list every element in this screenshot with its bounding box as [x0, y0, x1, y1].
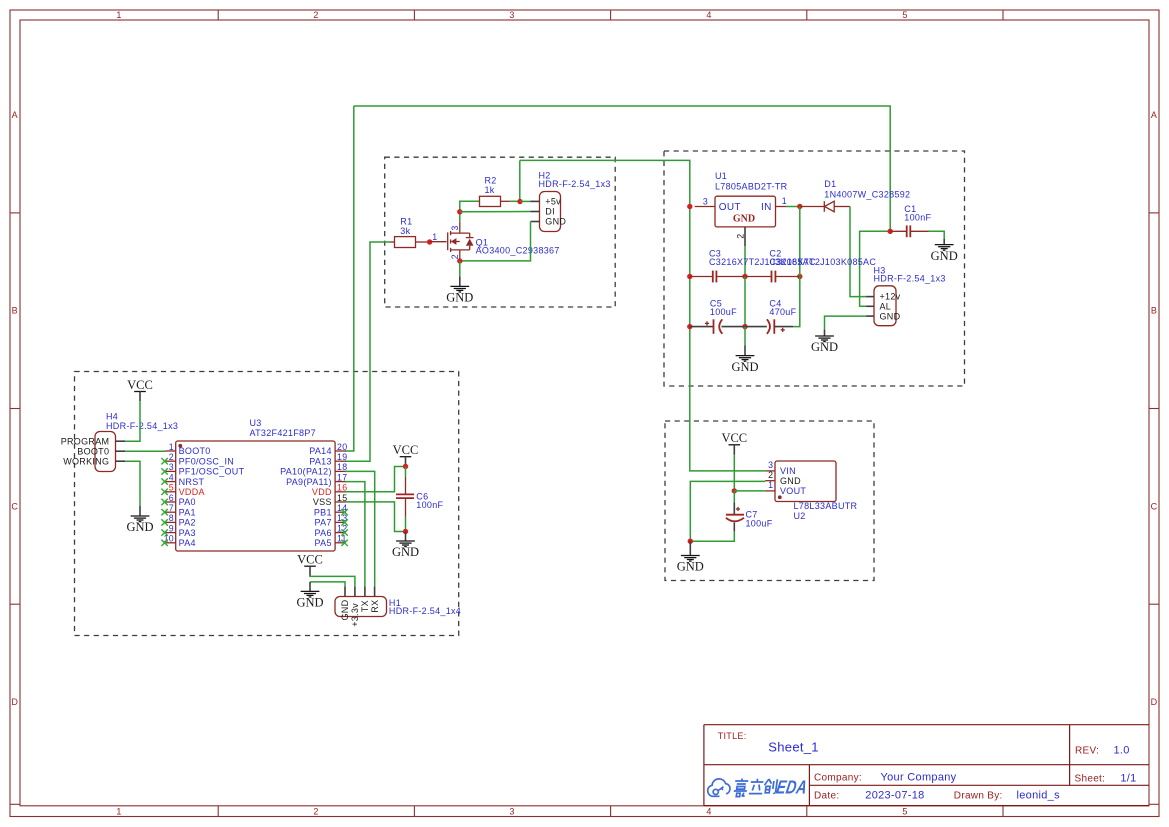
pin 9 PA3 of U3 [165, 523, 196, 537]
svg-text:VCC: VCC [127, 378, 153, 392]
svg-text:4: 4 [706, 10, 711, 20]
wire +5V branch down to R2 output [519, 160, 521, 201]
svg-text:AT32F421F8P7: AT32F421F8P7 [250, 428, 316, 438]
svg-text:PA1: PA1 [179, 507, 196, 517]
wire U3 VDD pin16 to VCC/C6 [345, 467, 406, 492]
svg-text:4: 4 [169, 472, 174, 482]
pin 1 BOOT0 of U3 [165, 442, 211, 456]
svg-text:1: 1 [768, 480, 773, 490]
svg-text:L78L33ABUTR: L78L33ABUTR [794, 501, 858, 511]
svg-text:HDR-F-2.54_1x3: HDR-F-2.54_1x3 [539, 179, 611, 189]
svg-text:PA5: PA5 [315, 538, 332, 548]
wire IN rail down [799, 207, 801, 277]
svg-text:3: 3 [768, 460, 773, 470]
svg-text:VDD: VDD [312, 487, 332, 497]
svg-text:1/1: 1/1 [1120, 773, 1136, 785]
wire VOUT node to U2 pin1 [734, 490, 765, 492]
regulator U2 [765, 460, 857, 521]
svg-text:GND: GND [731, 360, 758, 374]
svg-text:GND: GND [931, 249, 958, 263]
svg-text:3: 3 [509, 10, 514, 20]
power VCC at U2 [721, 431, 747, 454]
svg-text:3: 3 [509, 807, 514, 817]
wire R2 right to +5v node [510, 200, 520, 202]
svg-text:D1: D1 [824, 179, 836, 189]
svg-text:6: 6 [169, 493, 174, 503]
pin 20 PA14 of U3 [309, 442, 347, 456]
svg-text:+12v: +12v [880, 292, 901, 302]
svg-text:B: B [1151, 306, 1157, 316]
wire C7 bottom to ground rail [690, 531, 734, 541]
wire R2 left to Q1 drain [460, 201, 480, 221]
capacitor C6 [396, 467, 444, 532]
svg-text:C: C [11, 501, 18, 511]
diode D1 [800, 179, 911, 212]
svg-text:PA9(PA11): PA9(PA11) [286, 477, 332, 487]
svg-text:leonid_s: leonid_s [1017, 790, 1061, 802]
svg-text:PA14: PA14 [309, 446, 332, 456]
svg-text:1: 1 [169, 442, 174, 452]
power VCC at H1 [297, 553, 323, 576]
node junction Q1 source [457, 258, 462, 263]
svg-text:AO3400_C2938367: AO3400_C2938367 [476, 246, 560, 256]
svg-text:7: 7 [169, 503, 174, 513]
title block [704, 725, 1149, 806]
wire VCC to C6 node [405, 464, 407, 467]
ground GND of switch circuit [446, 276, 473, 304]
svg-text:VCC: VCC [297, 553, 323, 567]
svg-text:VSS: VSS [313, 497, 332, 507]
logo JLC EDA [708, 777, 809, 798]
no-connect pin 9 [161, 529, 167, 535]
svg-text:B: B [12, 306, 18, 316]
power VCC at C6 [393, 443, 419, 466]
wire H3 GND to ground [825, 316, 867, 329]
svg-text:9: 9 [169, 523, 174, 533]
pin 11 PA5 of U3 [315, 534, 347, 548]
svg-text:HDR-F-2.54_1x3: HDR-F-2.54_1x3 [106, 421, 178, 431]
svg-text:OUT: OUT [719, 202, 741, 213]
no-connect pin 2 [161, 458, 167, 464]
svg-text:2: 2 [313, 807, 318, 817]
svg-text:PA7: PA7 [315, 518, 332, 528]
svg-text:VCC: VCC [721, 431, 747, 445]
wire VCC to H1 +3.3v [310, 576, 355, 587]
svg-text:A: A [12, 110, 18, 120]
node junction C5 left [687, 324, 692, 329]
pin 12 PA6 of U3 [315, 523, 348, 537]
svg-text:VIN: VIN [780, 466, 796, 476]
svg-text:5: 5 [169, 483, 174, 493]
resistor R1 [391, 217, 430, 248]
no-connect pin 11 [341, 540, 347, 546]
node junction VOUT/C7 [732, 488, 737, 493]
connector H1 [335, 587, 461, 627]
no-connect pin 14 [341, 509, 347, 515]
svg-text:VCC: VCC [393, 443, 419, 457]
pin 2 PF0/OSC_IN of U3 [165, 452, 234, 466]
svg-text:100uF: 100uF [710, 307, 737, 317]
pin 7 PA1 of U3 [165, 503, 196, 517]
pin 13 PA7 of U3 [315, 513, 348, 527]
svg-text:PA2: PA2 [179, 518, 196, 528]
svg-text:PA3: PA3 [179, 528, 196, 538]
svg-text:8: 8 [169, 513, 174, 523]
svg-text:AL: AL [880, 302, 892, 312]
wire U2 GND pin to ground [690, 481, 765, 541]
svg-text:GND: GND [811, 340, 838, 354]
svg-text:Your Company: Your Company [881, 771, 957, 783]
svg-text:TITLE:: TITLE: [718, 731, 747, 741]
no-connect pin 7 [161, 509, 167, 515]
pin 3 PF1/OSC_OUT of U3 [165, 462, 245, 476]
svg-text:GND: GND [733, 213, 755, 224]
svg-text:2023-07-18: 2023-07-18 [865, 790, 924, 802]
svg-text:EDA: EDA [775, 777, 809, 798]
svg-text:HDR-F-2.54_1x4: HDR-F-2.54_1x4 [389, 606, 461, 616]
wire R1 to Q1 gate [430, 241, 447, 243]
svg-text:1.0: 1.0 [1114, 744, 1130, 756]
capacitor C7 [726, 491, 773, 532]
svg-text:Sheet_1: Sheet_1 [768, 740, 819, 755]
connector H3 [866, 266, 946, 326]
node junction IN/D1 [797, 204, 802, 209]
ground GND at C1 [931, 239, 958, 263]
ground GND at H3 [811, 329, 838, 354]
svg-text:PF1/OSC_OUT: PF1/OSC_OUT [179, 467, 245, 477]
svg-text:5: 5 [902, 807, 907, 817]
wire U3 PA10 pin18 to H1 RX [345, 471, 375, 586]
pin 4 NRST of U3 [165, 472, 205, 486]
svg-text:GND: GND [545, 216, 566, 226]
wire Q1 source to ground [459, 261, 461, 276]
svg-text:4: 4 [706, 807, 711, 817]
node junction Q1 drain / DI [457, 209, 462, 214]
svg-text:100uF: 100uF [746, 518, 773, 528]
svg-text:100nF: 100nF [416, 500, 443, 510]
no-connect pin 4 [161, 478, 167, 484]
wire U3 VSS pin15 to C6 bottom [345, 502, 406, 532]
pin 8 PA2 of U3 [165, 513, 196, 527]
svg-text:HDR-F-2.54_1x3: HDR-F-2.54_1x3 [874, 273, 946, 283]
ground GND of power supply [731, 345, 758, 373]
svg-text:3: 3 [703, 196, 708, 206]
MCU U3 [176, 418, 335, 551]
svg-text:PB1: PB1 [314, 507, 332, 517]
svg-text:DI: DI [545, 207, 555, 217]
section box: switch circuit [385, 157, 616, 307]
svg-text:GND: GND [880, 311, 901, 321]
pin 6 PA0 of U3 [165, 493, 196, 507]
pin 16 VDD of U3 [312, 483, 347, 497]
capacitor C1 [890, 204, 931, 237]
pin 18 PA10(PA12) of U3 [280, 462, 347, 476]
svg-text:5: 5 [902, 10, 907, 20]
ground GND below H4 [126, 506, 153, 534]
no-connect pin 10 [161, 540, 167, 546]
svg-text:2: 2 [735, 234, 745, 239]
node junction R1-Q1 gate [427, 239, 432, 244]
resistor R2 [480, 176, 511, 207]
svg-text:100nF: 100nF [904, 213, 931, 223]
capacitor C2 [745, 248, 876, 282]
wire H4 WORKING to ground [125, 461, 140, 506]
svg-text:GND: GND [392, 545, 419, 559]
svg-text:3: 3 [169, 462, 174, 472]
node junction GND rail C3/C2 [742, 274, 747, 279]
wire +5V net horizontal to U1 [520, 160, 765, 471]
svg-text:L7805ABD2T-TR: L7805ABD2T-TR [715, 182, 788, 192]
node junction +5v [517, 199, 522, 204]
svg-text:IN: IN [761, 202, 772, 213]
svg-text:1: 1 [432, 232, 437, 242]
capacitor C5 [690, 298, 745, 334]
node junction C2 right [797, 274, 802, 279]
svg-text:3: 3 [450, 225, 460, 230]
svg-text:C3216X7T2J103K085AC: C3216X7T2J103K085AC [769, 257, 876, 267]
wire ground to H1 GND pin [310, 582, 345, 587]
svg-text:WORKING: WORKING [63, 456, 109, 466]
connector H2 [531, 170, 611, 231]
svg-text:470uF: 470uF [769, 307, 796, 317]
svg-text:REV:: REV: [1075, 745, 1099, 756]
pin 14 PB1 of U3 [314, 503, 348, 517]
pin 5 VDDA of U3 [165, 483, 205, 497]
svg-text:RX: RX [370, 600, 380, 613]
svg-text:GND: GND [677, 560, 704, 574]
svg-text:U1: U1 [715, 171, 727, 181]
svg-text:1: 1 [116, 807, 121, 817]
wire C2 right rail down to C4 [793, 277, 800, 327]
ground GND below C6 [392, 532, 419, 560]
wire PA14 vertical to pin 20 [345, 106, 354, 451]
svg-text:2: 2 [768, 470, 773, 480]
svg-text:Drawn By:: Drawn By: [954, 791, 1003, 802]
wire D1 anode to H3 +12v [850, 207, 866, 297]
no-connect pin 6 [161, 499, 167, 505]
pin 17 PA9(PA11) of U3 [286, 472, 347, 486]
wire C1 to ground [929, 231, 945, 239]
pin 19 PA13 of U3 [309, 452, 347, 466]
svg-text:GND: GND [340, 599, 350, 620]
svg-text:PA0: PA0 [179, 497, 196, 507]
svg-text:Date:: Date: [814, 791, 839, 802]
wire U1 IN to diode node [786, 206, 800, 208]
svg-text:TX: TX [360, 600, 370, 612]
svg-text:VDDA: VDDA [179, 487, 205, 497]
svg-text:1: 1 [116, 10, 121, 20]
svg-text:NRST: NRST [179, 477, 205, 487]
node junction C5/C4 center [742, 324, 747, 329]
svg-text:GND: GND [446, 291, 473, 305]
svg-text:1N4007W_C328592: 1N4007W_C328592 [824, 189, 910, 199]
svg-text:D: D [11, 697, 18, 707]
wire R1 to PA13 pin 19 [345, 242, 391, 461]
svg-text:1: 1 [782, 196, 787, 206]
svg-text:20: 20 [337, 442, 347, 452]
svg-text:2: 2 [313, 10, 318, 20]
svg-text:Sheet:: Sheet: [1075, 774, 1106, 785]
wire H4 BOOT0 to U3 pin1 [125, 450, 165, 452]
svg-text:+3.3v: +3.3v [350, 603, 360, 627]
wire +12v net vertical [860, 231, 891, 306]
node junction C1/+12v [888, 229, 893, 234]
section box: power supply [664, 151, 965, 386]
svg-text:A: A [1151, 110, 1157, 120]
svg-text:3k: 3k [400, 226, 410, 236]
capacitor C4 [745, 298, 797, 334]
pin 15 VSS of U3 [313, 493, 348, 507]
node junction U1 OUT [687, 204, 692, 209]
no-connect pin 12 [341, 529, 347, 535]
svg-text:PA6: PA6 [315, 528, 332, 538]
wire VCC to VOUT node [733, 455, 735, 491]
svg-text:PA13: PA13 [309, 456, 332, 466]
wire H4 PROGRAM to VCC [125, 401, 140, 441]
svg-text:BOOT0: BOOT0 [179, 446, 211, 456]
svg-text:C: C [1151, 501, 1158, 511]
wire DI to H2 [460, 211, 531, 213]
svg-text:U3: U3 [250, 418, 262, 428]
ground GND at C7 [677, 541, 704, 574]
node junction C3 left [687, 274, 692, 279]
svg-text:D: D [1151, 697, 1158, 707]
node junction C6 bottom [403, 529, 408, 534]
svg-text:Company:: Company: [814, 772, 862, 783]
svg-text:+5v: +5v [545, 196, 561, 206]
svg-text:BOOT0: BOOT0 [77, 446, 109, 456]
wire U3 PA9 pin17 to H1 TX [345, 482, 365, 587]
svg-text:19: 19 [337, 452, 347, 462]
wire U1 pin2 to ground rail [744, 246, 746, 276]
no-connect pin 5 [161, 489, 167, 495]
power VCC at H4 [127, 378, 153, 401]
wire PA14 net top horizontal [354, 106, 890, 231]
regulator U1 [695, 171, 788, 246]
wire center rail to ground [744, 327, 746, 346]
section box: MCU [75, 372, 459, 636]
svg-text:GND: GND [126, 520, 153, 534]
wire H2 GND to Q1 source [460, 222, 531, 261]
connector H4 [61, 412, 179, 472]
svg-text:GND: GND [296, 596, 323, 610]
svg-text:VOUT: VOUT [780, 486, 806, 496]
svg-text:PA4: PA4 [179, 538, 196, 548]
svg-text:1k: 1k [485, 185, 495, 195]
svg-text:PF0/OSC_IN: PF0/OSC_IN [179, 456, 235, 466]
node junction VCC/C6 [403, 464, 408, 469]
no-connect pin 8 [161, 519, 167, 525]
svg-text:2: 2 [169, 452, 174, 462]
capacitor C3 [690, 248, 816, 282]
wire +5v node to H2 pin 1 [520, 200, 531, 202]
svg-text:U2: U2 [794, 511, 806, 521]
no-connect pin 3 [161, 468, 167, 474]
svg-text:PROGRAM: PROGRAM [61, 436, 110, 446]
svg-text:PA10(PA12): PA10(PA12) [280, 467, 332, 477]
svg-text:GND: GND [780, 476, 801, 486]
wire GND rail down to C5 row [744, 277, 746, 327]
section box: 3.3V regulator [665, 421, 874, 581]
no-connect pin 13 [341, 519, 347, 525]
pin 10 PA4 of U3 [164, 534, 196, 548]
ground GND at H1 [296, 582, 323, 610]
transistor Q1 [448, 222, 560, 261]
node junction C7/GND [688, 539, 693, 544]
